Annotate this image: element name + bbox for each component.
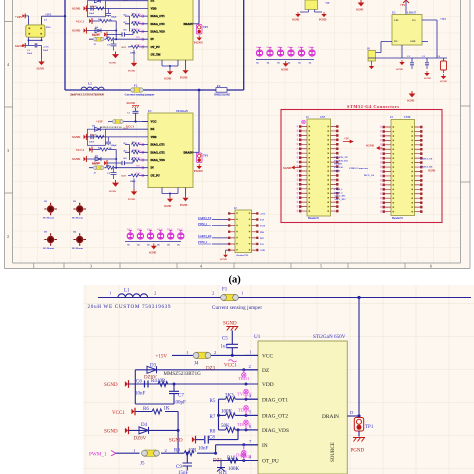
svg-text:SGND: SGND: [283, 166, 292, 170]
svg-text:2A: 2A: [44, 18, 47, 21]
svg-text:PGND: PGND: [194, 41, 203, 45]
svg-text:DIAG_VDS: DIAG_VDS: [151, 31, 166, 34]
svg-text:F2: F2: [134, 84, 138, 88]
svg-text:J5: J5: [140, 462, 145, 467]
svg-text:U2: U2: [392, 12, 396, 15]
svg-text:OT_PU: OT_PU: [151, 174, 160, 177]
svg-text:OT_TM: OT_TM: [151, 54, 161, 57]
svg-text:L1: L1: [124, 289, 130, 294]
svg-text:L2: L2: [88, 82, 92, 86]
svg-text:VDD: VDD: [151, 136, 157, 139]
svg-text:3K3: 3K3: [225, 393, 234, 398]
svg-text:IN: IN: [262, 443, 268, 449]
svg-text:1K: 1K: [177, 245, 180, 247]
svg-text:M3 Mount: M3 Mount: [72, 217, 83, 220]
svg-text:C8: C8: [209, 436, 215, 441]
svg-text:+5V1: +5V1: [45, 13, 52, 16]
svg-text:DIAG_OT2: DIAG_OT2: [262, 414, 288, 420]
svg-text:SGND: SGND: [37, 68, 44, 71]
svg-text:SGND: SGND: [366, 145, 374, 148]
svg-text:TBG1: TBG1: [240, 454, 252, 459]
svg-text:R5: R5: [210, 399, 216, 404]
svg-text:1K: 1K: [256, 63, 259, 65]
svg-text:DIAG_OT2: DIAG_OT2: [151, 23, 166, 26]
svg-text:1K: 1K: [147, 245, 150, 247]
svg-text:VDD: VDD: [262, 382, 274, 388]
svg-text:R10: R10: [227, 456, 236, 461]
svg-text:DL8: DL8: [137, 228, 142, 231]
svg-text:Header19: Header19: [308, 217, 320, 220]
svg-text:PGND: PGND: [319, 19, 326, 22]
svg-text:ADC1_IN2: ADC1_IN2: [334, 198, 346, 201]
svg-text:100pF: 100pF: [173, 401, 186, 406]
svg-text:DL4: DL4: [288, 46, 293, 49]
svg-text:Current sensing jumper: Current sensing jumper: [125, 93, 156, 97]
svg-text:PD1: PD1: [46, 26, 51, 29]
svg-text:DZ6V: DZ6V: [134, 437, 147, 442]
svg-text:1K: 1K: [157, 245, 160, 247]
svg-text:R7: R7: [210, 415, 216, 420]
svg-text:1K: 1K: [137, 245, 140, 247]
svg-text:10nF: 10nF: [198, 447, 209, 452]
svg-text:VCC1: VCC1: [224, 364, 237, 369]
svg-text:C6: C6: [136, 380, 142, 385]
svg-text:+3V3: +3V3: [440, 18, 447, 21]
svg-text:SOURCE: SOURCE: [331, 442, 336, 462]
svg-text:6: 6: [430, 264, 432, 269]
svg-text:DZ: DZ: [151, 128, 155, 131]
svg-text:EN: EN: [394, 40, 398, 43]
svg-text:DIAG_VDS: DIAG_VDS: [151, 159, 166, 162]
svg-text:F1: F1: [222, 288, 228, 293]
svg-text:SMD2512 0R5: SMD2512 0R5: [214, 92, 231, 96]
svg-text:LD1117: LD1117: [407, 12, 417, 15]
svg-text:CN7: CN7: [320, 116, 326, 119]
svg-text:GND: GND: [410, 40, 416, 43]
svg-text:100K: 100K: [228, 467, 240, 472]
svg-text:+5V: +5V: [325, 2, 330, 5]
svg-text:10R: 10R: [188, 449, 197, 454]
svg-text:PWM_1: PWM_1: [89, 452, 107, 458]
svg-text:DL12: DL12: [177, 228, 184, 231]
svg-text:DZ: DZ: [151, 0, 155, 3]
svg-text:SGND: SGND: [104, 430, 118, 435]
svg-text:IN: IN: [151, 38, 154, 41]
svg-text:DRAIN: DRAIN: [184, 23, 193, 26]
svg-text:VCC: VCC: [262, 354, 273, 360]
svg-text:SGND: SGND: [169, 439, 183, 444]
svg-text:+5V: +5V: [344, 138, 349, 141]
svg-text:VIN: VIN: [394, 19, 399, 22]
svg-text:PWM_1: PWM_1: [198, 223, 208, 226]
svg-text:VCC1: VCC1: [126, 124, 134, 128]
svg-text:PWM_2: PWM_2: [198, 241, 208, 244]
svg-text:Header19: Header19: [392, 217, 404, 220]
svg-text:SGND: SGND: [356, 9, 363, 12]
svg-text:UART1_RX: UART1_RX: [420, 166, 433, 169]
svg-text:C9: C9: [176, 465, 182, 470]
svg-text:F4: F4: [217, 84, 221, 88]
svg-text:UART1_TX: UART1_TX: [420, 158, 433, 161]
svg-text:TP1: TP1: [203, 155, 209, 158]
svg-text:1K: 1K: [298, 63, 301, 65]
svg-text:1K: 1K: [167, 245, 170, 247]
svg-text:PGND: PGND: [194, 169, 203, 173]
svg-text:DL1: DL1: [256, 46, 261, 49]
svg-text:TBD1: TBD1: [238, 376, 250, 381]
svg-text:DRAIN: DRAIN: [184, 151, 193, 154]
svg-text:SGND: SGND: [164, 205, 171, 208]
svg-text:SGND: SGND: [127, 101, 136, 105]
svg-text:DRAIN: DRAIN: [322, 414, 339, 420]
svg-text:PGND: PGND: [180, 77, 187, 80]
svg-text:C7: C7: [178, 394, 184, 399]
svg-text:DIAG_OT1: DIAG_OT1: [151, 15, 166, 18]
svg-text:DL10: DL10: [157, 228, 164, 231]
svg-text:STM32-G4 Connectors: STM32-G4 Connectors: [347, 104, 399, 109]
svg-text:3: 3: [7, 148, 9, 153]
svg-text:U1: U1: [254, 334, 261, 340]
svg-text:SGND: SGND: [424, 77, 431, 80]
svg-text:M3 Mount: M3 Mount: [72, 247, 83, 250]
svg-text:SGND: SGND: [223, 322, 237, 327]
svg-text:CN10: CN10: [404, 116, 411, 119]
svg-text:1K: 1K: [267, 63, 270, 65]
svg-text:50K: 50K: [221, 424, 230, 429]
svg-text:DL2: DL2: [267, 46, 272, 49]
svg-text:SGND: SGND: [292, 19, 299, 22]
svg-text:DL3: DL3: [277, 46, 282, 49]
svg-text:+15V: +15V: [156, 355, 168, 360]
svg-text:10R: 10R: [157, 379, 166, 384]
svg-text:DL11: DL11: [167, 228, 173, 231]
svg-text:TP1: TP1: [365, 425, 374, 430]
svg-text:J4: J4: [194, 362, 199, 367]
svg-text:100K: 100K: [221, 410, 233, 415]
svg-text:VDD: VDD: [151, 7, 157, 10]
svg-text:D3: D3: [150, 364, 157, 369]
svg-text:Header7X2: Header7X2: [237, 254, 249, 257]
svg-text:SGND: SGND: [407, 100, 414, 103]
svg-text:STi2GaN 650V: STi2GaN 650V: [313, 334, 346, 340]
svg-text:4: 4: [7, 62, 9, 67]
svg-text:(a): (a): [229, 275, 242, 286]
svg-text:IN: IN: [151, 167, 154, 170]
svg-text:SGND: SGND: [396, 68, 403, 71]
svg-text:SGND: SGND: [149, 252, 156, 255]
svg-text:SGND: SGND: [281, 69, 288, 72]
svg-text:+15V: +15V: [96, 120, 104, 124]
svg-text:+5V: +5V: [400, 3, 406, 7]
svg-text:DZ: DZ: [262, 368, 269, 374]
svg-text:M3 Mount: M3 Mount: [43, 247, 54, 250]
svg-text:STi2GaN: STi2GaN: [176, 109, 189, 113]
svg-text:PGND: PGND: [351, 449, 365, 454]
svg-text:5: 5: [320, 264, 322, 269]
svg-text:4: 4: [200, 264, 202, 269]
svg-text:1K: 1K: [164, 407, 171, 412]
svg-text:R6: R6: [143, 407, 149, 412]
svg-text:SGND: SGND: [440, 80, 447, 83]
svg-text:SGND: SGND: [104, 383, 118, 388]
svg-text:VCC1: VCC1: [112, 411, 125, 416]
svg-text:PGND: PGND: [180, 204, 187, 207]
svg-text:OT_PU: OT_PU: [151, 46, 160, 49]
svg-text:2: 2: [7, 234, 9, 239]
svg-text:10uF: 10uF: [43, 49, 49, 52]
svg-text:DL5: DL5: [298, 46, 303, 49]
svg-text:10uF: 10uF: [27, 52, 33, 55]
svg-text:D4: D4: [141, 423, 148, 428]
svg-text:VO: VO: [412, 19, 416, 22]
svg-text:STM32 Connector: STM32 Connector: [349, 167, 369, 170]
svg-text:R9: R9: [174, 449, 180, 454]
svg-text:DIAG_OT1: DIAG_OT1: [151, 144, 166, 147]
svg-text:DIAG_OT2: DIAG_OT2: [151, 151, 166, 154]
svg-text:C5: C5: [222, 337, 228, 342]
svg-text:DL6: DL6: [309, 46, 314, 49]
svg-text:SGND: SGND: [164, 78, 171, 81]
svg-text:DL7: DL7: [127, 228, 132, 231]
svg-text:DZ3: DZ3: [206, 367, 216, 372]
svg-text:SGND: SGND: [428, 170, 435, 173]
svg-text:NRST: NRST: [334, 169, 341, 172]
svg-text:TP2: TP2: [203, 26, 209, 29]
svg-text:20uH WE CUSTOM 750319639: 20uH WE CUSTOM 750319639: [70, 93, 104, 97]
svg-text:Current sensing jumper: Current sensing jumper: [212, 306, 262, 311]
svg-text:R8: R8: [210, 430, 216, 435]
svg-text:DIAG_VDS: DIAG_VDS: [262, 428, 289, 434]
svg-text:VCC: VCC: [151, 121, 157, 124]
svg-text:UART4_RX: UART4_RX: [198, 235, 212, 238]
svg-text:MCU_G4: MCU_G4: [364, 174, 375, 177]
svg-text:20uH WE CUSTOM 750319639: 20uH WE CUSTOM 750319639: [88, 304, 171, 310]
svg-text:U1: U1: [148, 109, 152, 113]
svg-text:1K: 1K: [309, 63, 312, 65]
svg-text:MMSZ5233BT1G: MMSZ5233BT1G: [164, 372, 202, 377]
svg-text:DIAG_OT1: DIAG_OT1: [262, 398, 288, 404]
svg-text:DL9: DL9: [147, 228, 152, 231]
svg-text:1K: 1K: [277, 63, 280, 65]
svg-text:3: 3: [90, 264, 92, 269]
svg-text:GND: GND: [260, 250, 265, 252]
svg-text:OT_PU: OT_PU: [262, 459, 279, 465]
svg-text:M3 Mount: M3 Mount: [43, 217, 54, 220]
svg-text:SGND: SGND: [220, 258, 227, 261]
svg-text:10nF: 10nF: [135, 392, 146, 397]
svg-text:1K: 1K: [127, 245, 130, 247]
svg-text:1uF: 1uF: [221, 345, 229, 350]
svg-text:+24V: +24V: [15, 15, 23, 19]
